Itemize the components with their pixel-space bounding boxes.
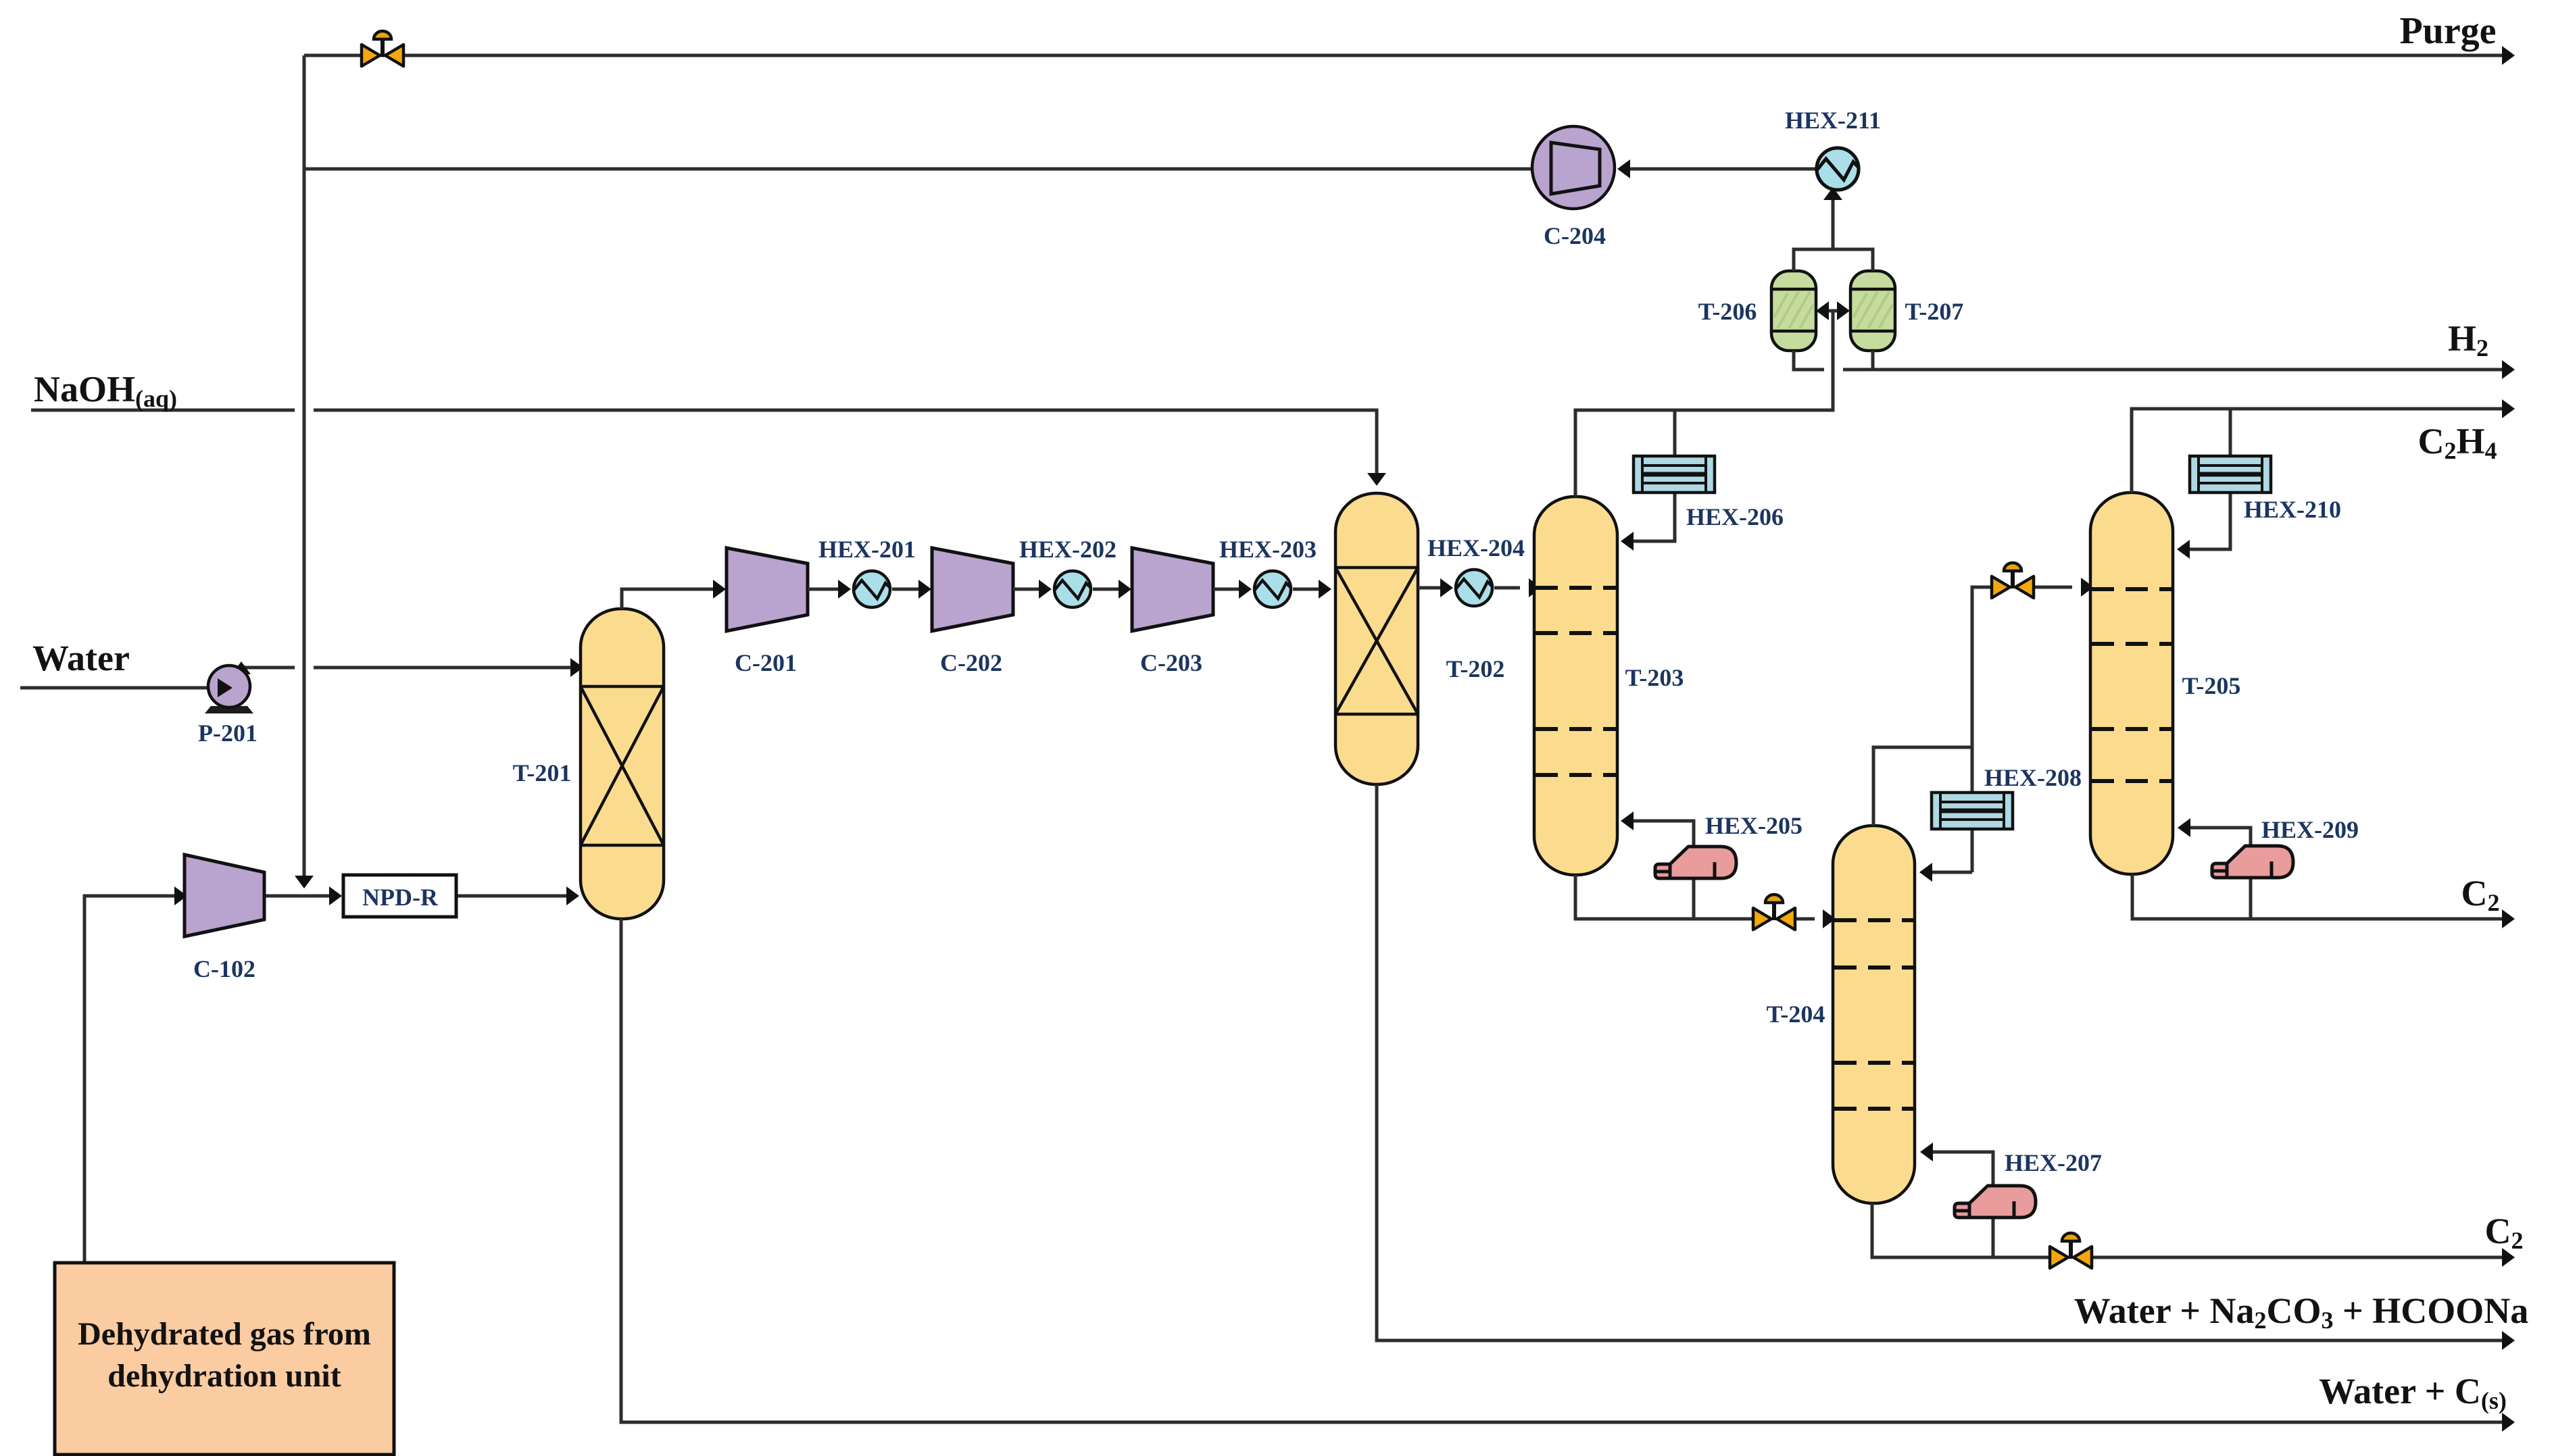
wire T-206/T-207 tops to HEX-211 [1794, 187, 1873, 271]
wire C-203 to HEX-203 [1213, 580, 1252, 599]
svg-text:Water + C(s): Water + C(s) [2319, 1371, 2507, 1414]
compressor C-203 [1132, 548, 1213, 631]
wire T-201 overhead to C-201 [622, 580, 726, 609]
wire T-205 bottoms to C2 [2132, 874, 2515, 928]
reboiler HEX-205 [1655, 847, 1736, 878]
svg-text:P-201: P-201 [198, 720, 257, 747]
compressor C-202 [932, 548, 1013, 631]
svg-text:HEX-209: HEX-209 [2261, 816, 2359, 843]
svg-text:T-203: T-203 [1625, 664, 1684, 691]
pump P-201 [205, 666, 253, 713]
svg-text:dehydration unit: dehydration unit [107, 1358, 341, 1394]
svg-text:T-207: T-207 [1905, 298, 1964, 325]
wire purge line [304, 46, 2515, 65]
svg-text:C-102: C-102 [193, 955, 255, 982]
svg-text:T-201: T-201 [513, 759, 572, 786]
column T-202 [1335, 493, 1418, 784]
condenser HEX-206 [1634, 456, 1715, 493]
svg-text:HEX-206: HEX-206 [1686, 503, 1784, 530]
column T-205 [2090, 493, 2173, 874]
wire T-204 overhead to valve to T-205 [1873, 578, 2094, 872]
svg-text:HEX-207: HEX-207 [2005, 1149, 2102, 1176]
svg-text:HEX-204: HEX-204 [1427, 534, 1525, 561]
wire C-102 to NPD-R [264, 886, 342, 905]
svg-text:Dehydrated gas from: Dehydrated gas from [78, 1316, 371, 1352]
column T-201 [581, 609, 664, 919]
condenser HEX-208 [1932, 793, 2013, 829]
wire T-204 bottoms to valve to C2 [1872, 1203, 2515, 1267]
wire purge/recycle vertical [295, 55, 314, 888]
svg-text:T-206: T-206 [1698, 298, 1757, 325]
wire HEX-205 riser reflux into T-203 [1621, 811, 1694, 919]
wire HEX-211 to C-204 [1617, 159, 1817, 178]
wire recycle from C-204 [304, 168, 1532, 171]
svg-text:HEX-205: HEX-205 [1705, 812, 1802, 839]
valve V-2 [1753, 895, 1795, 930]
svg-text:C-202: C-202 [940, 649, 1002, 676]
wire HEX-208 reflux into T-204 [1919, 863, 1972, 882]
heat exchanger HEX-203 [1254, 571, 1291, 607]
wire NPD-R to T-201 [457, 886, 579, 905]
svg-text:Water: Water [32, 638, 130, 678]
compressor C-201 [727, 548, 808, 631]
wire Water inlet [20, 678, 224, 697]
wire HEX-210 drop and reflux into T-205 [2177, 409, 2230, 559]
svg-text:HEX-202: HEX-202 [1019, 536, 1116, 563]
heat exchanger HEX-211 [1817, 148, 1859, 190]
svg-text:C-203: C-203 [1140, 649, 1202, 676]
column T-204 [1833, 826, 1915, 1203]
svg-text:HEX-208: HEX-208 [1984, 764, 2082, 791]
reactor NPD-R [343, 875, 456, 917]
svg-text:HEX-201: HEX-201 [818, 536, 916, 563]
condenser HEX-210 [2190, 456, 2271, 493]
source box dehydrated gas [55, 1263, 394, 1455]
wire HEX-204 to T-203 [1494, 578, 1542, 597]
reboiler HEX-209 [2212, 846, 2293, 878]
wire HEX-209 riser reflux into T-205 [2178, 818, 2251, 919]
wire HEX-202 to C-203 [1093, 580, 1131, 599]
column T-203 [1534, 497, 1617, 875]
wire T-203 bottoms to valve to T-204 [1575, 875, 1836, 928]
wire pump discharge to T-201 [232, 658, 583, 677]
wire C-202 to HEX-202 [1013, 580, 1052, 599]
compressor C-204 [1532, 126, 1615, 209]
heat exchanger HEX-202 [1054, 571, 1091, 607]
wire T-206/T-207 feed arrows [1816, 301, 1850, 320]
reboiler HEX-207 [1955, 1186, 2036, 1217]
wire T-202 bottoms (Water + Na2CO3 + HCOONa) [1377, 784, 2515, 1350]
svg-text:NPD-R: NPD-R [362, 884, 439, 911]
wire T-205 overhead to C2H4 [2132, 399, 2515, 493]
svg-text:T-202: T-202 [1446, 655, 1505, 682]
wire NaOH inlet [31, 410, 1386, 486]
svg-text:Purge: Purge [2399, 10, 2496, 52]
valve V-4 [2050, 1233, 2092, 1268]
compressor C-102 [185, 855, 264, 936]
svg-text:HEX-211: HEX-211 [1785, 107, 1881, 134]
wire HEX-201 to C-202 [892, 580, 931, 599]
svg-text:T-205: T-205 [2182, 672, 2241, 699]
wire T-206/T-207 bottoms to H2 line [1794, 351, 2515, 379]
wire HEX-206 drop and reflux into T-203 [1621, 410, 1675, 551]
wire T-201 bottoms (Water + C(s)) [621, 919, 2515, 1432]
svg-text:HEX-210: HEX-210 [2244, 496, 2341, 523]
valve V-1 purge [362, 31, 403, 66]
wire HEX-203 to T-202 [1293, 580, 1331, 599]
valve V-3 [1992, 563, 2034, 598]
adsorber T-206 [1771, 271, 1816, 351]
svg-text:C-201: C-201 [735, 649, 797, 676]
wire dehydrated gas to C-102 [84, 886, 187, 1263]
adsorber T-207 [1850, 271, 1895, 351]
heat exchanger HEX-201 [854, 571, 890, 607]
wire T-202 to HEX-204 [1418, 578, 1453, 597]
wire T-203 overhead [1575, 311, 1833, 497]
svg-text:HEX-203: HEX-203 [1219, 536, 1317, 563]
svg-text:T-204: T-204 [1767, 1001, 1825, 1028]
wire HEX-207 riser reflux into T-204 [1920, 1143, 1993, 1257]
svg-text:Water + Na2CO3 + HCOONa: Water + Na2CO3 + HCOONa [2074, 1290, 2529, 1334]
heat exchanger HEX-204 [1456, 570, 1492, 606]
wire C-201 to HEX-201 [808, 580, 851, 599]
svg-text:C-204: C-204 [1544, 222, 1606, 249]
